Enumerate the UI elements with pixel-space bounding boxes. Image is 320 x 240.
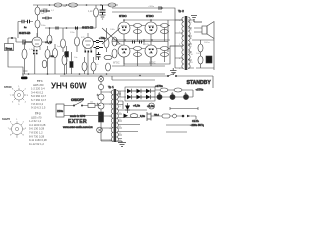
svg-text:СЕТЬ: СЕТЬ xyxy=(192,119,199,123)
capacitor C1 xyxy=(23,40,32,45)
svg-text:Ш25 х70: Ш25 х70 xyxy=(31,115,42,119)
svg-text:+6,3в: +6,3в xyxy=(133,104,141,108)
capacitor C9 electrolytic xyxy=(70,62,73,68)
fuse FU2 xyxy=(162,114,170,118)
connector XS1 xyxy=(5,44,14,51)
resistor R13 xyxy=(82,62,87,71)
wire grid bus xyxy=(112,34,170,66)
resistor R1 xyxy=(35,7,40,15)
wire R4 leads xyxy=(95,5,97,28)
diode VD3 xyxy=(146,89,151,93)
capacitor Cnfb2 xyxy=(28,20,30,23)
label Tp2 pins left xyxy=(179,20,194,70)
resistor bias1 xyxy=(112,37,117,46)
svg-text:3-4 40 0,2: 3-4 40 0,2 xyxy=(31,90,44,94)
svg-text:220в: 220в xyxy=(57,109,64,113)
resistor R4 xyxy=(94,8,99,17)
wire R12 xyxy=(64,52,66,74)
plug X1 xyxy=(147,112,151,121)
wire Tp2 taps right xyxy=(188,20,194,68)
socket pinout 6N2P xyxy=(2,117,27,139)
resistor R23 fusible xyxy=(99,112,104,122)
wire screen cross xyxy=(112,20,168,62)
resistor R11 xyxy=(75,37,80,46)
svg-text:+385в: +385в xyxy=(148,6,155,8)
ground C4 xyxy=(100,15,106,19)
transformer Tp2 secondary winding xyxy=(188,17,190,69)
junction dots rails xyxy=(28,4,163,77)
svg-text:10Вт: 10Вт xyxy=(110,29,115,31)
wire R19 xyxy=(200,64,202,68)
resistor R18 xyxy=(198,44,203,52)
capacitor C4 xyxy=(100,5,106,15)
wire cathode drops xyxy=(138,28,165,67)
wire R8 xyxy=(54,44,56,74)
capacitor Cg2 xyxy=(140,41,142,44)
capacitor C11 xyxy=(94,47,104,49)
wire Tp1 taps left xyxy=(101,92,112,140)
resistor R10 xyxy=(61,39,66,48)
capacitor C12 electrolytic xyxy=(157,94,162,99)
label sprinkle group xyxy=(29,6,210,104)
wire phase cross xyxy=(102,28,120,44)
ground speaker xyxy=(191,16,202,23)
resistor R12 xyxy=(62,55,67,65)
lamp HL1 xyxy=(98,76,103,81)
capacitor Cnfb1 xyxy=(22,20,24,23)
resistor grid V4 xyxy=(161,24,169,28)
wire mid coupling rail xyxy=(45,27,96,29)
svg-text:11-12 62 1,2: 11-12 62 1,2 xyxy=(29,142,44,146)
wire C9 xyxy=(71,52,73,74)
svg-text:ТР 2: ТР 2 xyxy=(35,112,41,116)
transformer Tp1 core xyxy=(114,89,117,142)
svg-text:6П3С: 6П3С xyxy=(113,61,120,65)
diode VD2 xyxy=(137,89,142,93)
capacitor C15 xyxy=(149,103,155,109)
wire standby right xyxy=(176,76,213,97)
resistor R20 xyxy=(160,88,168,92)
resistor R9 xyxy=(47,35,52,44)
table TP1 xyxy=(31,79,47,110)
svg-text:5-6 360 0,17: 5-6 360 0,17 xyxy=(31,94,47,98)
ground standby xyxy=(170,68,177,75)
capacitor C6 electrolytic xyxy=(65,52,69,58)
wire R13 xyxy=(84,57,86,74)
wire nfb caps xyxy=(18,22,33,39)
svg-text:7-8 40 0,2: 7-8 40 0,2 xyxy=(31,102,44,106)
tube V2 xyxy=(83,38,94,49)
resistor R8 xyxy=(53,49,58,58)
rectifier bridge box xyxy=(125,87,155,101)
svg-text:6-7 360 0,17: 6-7 360 0,17 xyxy=(31,98,47,102)
wire stage2 drops xyxy=(88,48,96,75)
transformer Tp2 primary winding xyxy=(182,17,184,69)
diode VD7 xyxy=(125,106,130,111)
svg-text:7-8 530 1,2: 7-8 530 1,2 xyxy=(29,131,43,135)
resistor grid V3 xyxy=(134,24,142,28)
ground terminal input xyxy=(21,77,28,80)
wire V1 cathode xyxy=(34,55,36,75)
lamp HL2 xyxy=(97,127,103,133)
svg-text:220к: 220к xyxy=(70,32,75,34)
wire input shield xyxy=(8,51,28,77)
resistor grid V6 xyxy=(161,47,169,51)
resistor R7 xyxy=(45,50,50,59)
svg-text:6П3С: 6П3С xyxy=(119,14,127,18)
resistor grid V5 xyxy=(134,47,142,51)
svg-text:270к: 270к xyxy=(145,44,150,46)
svg-text:6П3С: 6П3С xyxy=(149,61,156,65)
svg-text:Ш25 х50: Ш25 х50 xyxy=(33,83,44,87)
resistor R3 xyxy=(35,20,40,28)
wire Tp1 taps right xyxy=(118,91,147,142)
wire legend line1 xyxy=(166,124,196,126)
junction tube V1 pins xyxy=(33,50,38,55)
svg-text:6Н2П-ЕВ: 6Н2П-ЕВ xyxy=(19,31,31,35)
svg-text:270к: 270к xyxy=(118,44,123,46)
svg-text:EXTER: EXTER xyxy=(68,119,87,125)
wire R7 xyxy=(47,46,49,74)
wire R6 xyxy=(24,42,26,74)
wire anodes top pair xyxy=(124,20,183,22)
capacitor C18 electrolytic xyxy=(98,103,104,109)
diode VD6 xyxy=(146,95,151,99)
capacitor C10 xyxy=(94,41,104,43)
resistor R16 xyxy=(104,55,112,59)
resistor R15 xyxy=(91,62,96,71)
wire HV rail to output stage xyxy=(112,8,175,20)
wire to speaker xyxy=(193,20,195,22)
fuse FU1 xyxy=(88,104,95,108)
junction mains xyxy=(182,115,184,117)
svg-text:1,5к: 1,5к xyxy=(29,49,33,51)
capacitor C13 electrolytic xyxy=(170,94,175,99)
svg-text:6,3в: 6,3в xyxy=(140,114,146,118)
tube V5 xyxy=(118,45,130,57)
junction tube pins output xyxy=(122,27,154,53)
svg-text:6Н2П-ЕВ: 6Н2П-ЕВ xyxy=(82,26,94,30)
switch SA2 standby xyxy=(168,73,176,77)
wire heater line xyxy=(170,107,198,110)
capacitor C16 xyxy=(98,84,103,89)
resistor R2b xyxy=(69,3,78,7)
ground Tp1 xyxy=(118,141,126,147)
wire mains cord xyxy=(151,115,183,117)
wire mains upper xyxy=(64,105,101,107)
resistor R6 xyxy=(22,49,27,59)
svg-text:1-2 62 1,2: 1-2 62 1,2 xyxy=(29,119,42,123)
capacitor C2 xyxy=(40,10,50,13)
diode VD5 xyxy=(137,95,142,99)
svg-text:+6,3в: +6,3в xyxy=(147,104,155,108)
wire Tp1 bottom rail xyxy=(101,140,122,142)
svg-text:9-11 1160 0,28: 9-11 1160 0,28 xyxy=(29,138,47,142)
diode VD4 xyxy=(127,95,132,99)
switch SA1 xyxy=(74,102,82,106)
svg-text:1к: 1к xyxy=(133,25,135,27)
capacitor C14 electrolytic xyxy=(183,94,188,99)
svg-text:Тр 2: Тр 2 xyxy=(178,9,184,13)
wire feedback line xyxy=(60,75,168,77)
svg-text:300к: 300к xyxy=(41,25,46,27)
tube V4 xyxy=(145,22,157,34)
capacitor C17 electrolytic xyxy=(98,94,104,100)
wire rectifier row1 xyxy=(120,90,193,91)
svg-text:6П3С: 6П3С xyxy=(146,14,154,18)
wire R15 xyxy=(93,57,95,74)
svg-text:6Н2П: 6Н2П xyxy=(2,117,11,121)
wire bottom ground rail xyxy=(22,73,165,75)
capacitor Cg1 xyxy=(133,41,135,44)
svg-text:ТР 1: ТР 1 xyxy=(37,79,43,83)
wire anodes bottom pair xyxy=(124,46,183,64)
connector mains 220v xyxy=(56,104,64,117)
wire right column xyxy=(188,39,214,71)
wire psu left column xyxy=(100,76,102,141)
tube V3 xyxy=(118,22,130,34)
wire mains lower xyxy=(64,115,101,117)
wire input top xyxy=(8,38,23,44)
lamp mains xyxy=(173,114,177,118)
svg-text:Вход: Вход xyxy=(6,47,13,51)
svg-text:5-6 130 0,28: 5-6 130 0,28 xyxy=(29,127,45,131)
wire R11 xyxy=(76,28,78,52)
svg-text:1м: 1м xyxy=(41,13,44,15)
junction input xyxy=(11,37,12,38)
svg-text:STANDBY: STANDBY xyxy=(187,80,212,86)
transformer Tp1 secondary winding xyxy=(116,90,118,142)
table TP2 xyxy=(29,112,47,146)
svg-text:1-2 220 0,4: 1-2 220 0,4 xyxy=(31,87,45,91)
wire R9 xyxy=(42,28,50,42)
socket pinout 6P3S xyxy=(4,85,29,106)
resistor R14 xyxy=(104,38,109,48)
svg-text:10к: 10к xyxy=(74,57,77,59)
svg-text:3-4 1160 0,28: 3-4 1160 0,28 xyxy=(29,123,46,127)
svg-text:+370в: +370в xyxy=(155,84,163,88)
svg-text:www.exter-audio.narod.ru: www.exter-audio.narod.ru xyxy=(63,125,93,129)
wire R14 xyxy=(106,28,108,52)
junction tube V2 pins xyxy=(85,51,93,53)
tube V6 xyxy=(145,45,157,57)
capacitor C3 xyxy=(42,17,52,20)
wire R18 xyxy=(192,40,214,56)
wire b+ stub xyxy=(112,76,155,80)
resistor R7b xyxy=(42,60,47,68)
wire grids xyxy=(130,26,170,49)
capacitor C8 xyxy=(76,27,78,30)
resistor R19 xyxy=(198,56,203,64)
diode VD1 xyxy=(127,89,132,93)
resistor R21 xyxy=(174,88,182,92)
resistor R5 xyxy=(108,3,116,7)
connector XS2 xyxy=(206,56,212,63)
capacitor Chv xyxy=(159,6,161,9)
svg-text:16Ом: 16Ом xyxy=(204,42,210,44)
resistor R22 xyxy=(130,114,138,118)
wire top supply rail xyxy=(33,4,118,6)
svg-text:made in NPS: made in NPS xyxy=(70,114,86,118)
svg-text:~220в 50Гц: ~220в 50Гц xyxy=(190,123,204,127)
wire C6 xyxy=(66,46,68,74)
label C12 plus xyxy=(158,92,187,94)
wire Tp2 taps left xyxy=(170,20,183,68)
wire rectifier row2 xyxy=(120,96,193,98)
svg-text:1к: 1к xyxy=(160,25,162,27)
resistor R17 xyxy=(106,63,111,71)
tube V1 xyxy=(32,37,42,47)
svg-text:Тр 1: Тр 1 xyxy=(108,85,114,89)
transformer Tp2 core xyxy=(185,16,188,70)
capacitor C7 xyxy=(56,27,58,30)
svg-text:УНЧ 60W: УНЧ 60W xyxy=(51,81,87,91)
wire R10 xyxy=(62,28,64,52)
svg-text:8-9 730 0,28: 8-9 730 0,28 xyxy=(29,134,45,138)
svg-text:+370в: +370в xyxy=(196,88,204,92)
label Tp1 pins xyxy=(110,92,123,142)
wire legend line2 xyxy=(166,131,187,133)
svg-text:9-10 6,3 1,5: 9-10 6,3 1,5 xyxy=(31,106,46,110)
wire screen rail xyxy=(112,11,162,13)
resistor bias2 xyxy=(112,49,117,58)
capacitor C9b xyxy=(97,52,101,60)
transformer Tp1 primary winding xyxy=(111,90,113,142)
diode VD8 xyxy=(124,114,129,118)
speaker BA1 xyxy=(202,26,207,34)
resistor R2 xyxy=(54,3,62,7)
wire R1 leads xyxy=(37,5,39,20)
